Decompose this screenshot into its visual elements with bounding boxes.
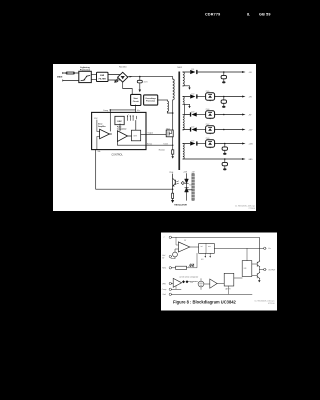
svg-text:Vfb: Vfb [98, 151, 101, 153]
svg-text:71003: 71003 [163, 143, 168, 145]
svg-text:7V05: 7V05 [206, 91, 210, 93]
svg-text:Rsense: Rsense [159, 149, 165, 151]
svg-text:Rectifier: Rectifier [119, 65, 127, 68]
svg-text:7102: 7102 [166, 128, 170, 130]
svg-text:Figure 8 : Blockdiagram UC3842: Figure 8 : Blockdiagram UC3842 [173, 299, 237, 304]
svg-text:GB 59: GB 59 [259, 12, 271, 16]
svg-text:Vcc: Vcc [137, 110, 140, 112]
svg-text:Rt/Ct: Rt/Ct [162, 267, 166, 270]
svg-text:Protection: Protection [146, 100, 155, 103]
svg-text:Comp: Comp [103, 110, 108, 112]
svg-text:8.: 8. [247, 12, 250, 16]
svg-text:Comp: Comp [162, 289, 167, 291]
svg-text:S R: S R [134, 136, 138, 138]
svg-text:OUTPUT: OUTPUT [268, 269, 275, 271]
svg-text:CONTROL: CONTROL [112, 155, 124, 157]
svg-text:7V08: 7V08 [206, 138, 210, 140]
svg-text:OSC: OSC [117, 121, 122, 123]
svg-text:FILTER: FILTER [99, 78, 107, 80]
svg-text:7104: 7104 [169, 172, 173, 174]
svg-text:LATCH: LATCH [225, 288, 231, 291]
svg-text:4 8: 4 8 [201, 259, 203, 261]
svg-text:GND: GND [249, 159, 254, 161]
svg-text:osc: osc [208, 246, 211, 248]
svg-text:Vcc: Vcc [268, 248, 271, 250]
svg-text:CL 96532018_016.eps: CL 96532018_016.eps [254, 301, 274, 303]
svg-text:7V07: 7V07 [206, 124, 210, 126]
svg-text:7V06: 7V06 [206, 109, 210, 111]
svg-text:EMI: EMI [100, 75, 104, 77]
svg-text:271100: 271100 [248, 208, 255, 210]
svg-text:current sense comparator: current sense comparator [179, 275, 199, 278]
svg-text:CD5: CD5 [191, 140, 194, 142]
svg-text:071100: 071100 [268, 303, 275, 305]
svg-text:Circuit: Circuit [133, 100, 139, 103]
svg-text:CD2: CD2 [191, 94, 194, 96]
svg-text:7: 7 [164, 237, 165, 239]
svg-text:Output: Output [148, 132, 154, 135]
svg-text:CD3: CD3 [191, 111, 194, 113]
svg-text:MAIN: MAIN [57, 75, 63, 78]
svg-text:REGULATOR: REGULATOR [174, 204, 187, 207]
svg-text:TS2: TS2 [189, 185, 192, 187]
svg-text:Amplifier: Amplifier [98, 125, 106, 128]
svg-text:CDR779: CDR779 [205, 12, 220, 16]
svg-text:Gnd: Gnd [163, 294, 166, 296]
svg-text:Comparator: Comparator [117, 128, 127, 131]
svg-text:Start: Start [134, 97, 139, 100]
svg-text:Sense: Sense [147, 143, 152, 145]
svg-text:CD1: CD1 [191, 69, 194, 71]
svg-text:Protection: Protection [80, 69, 91, 72]
svg-text:CD4: CD4 [191, 126, 194, 128]
